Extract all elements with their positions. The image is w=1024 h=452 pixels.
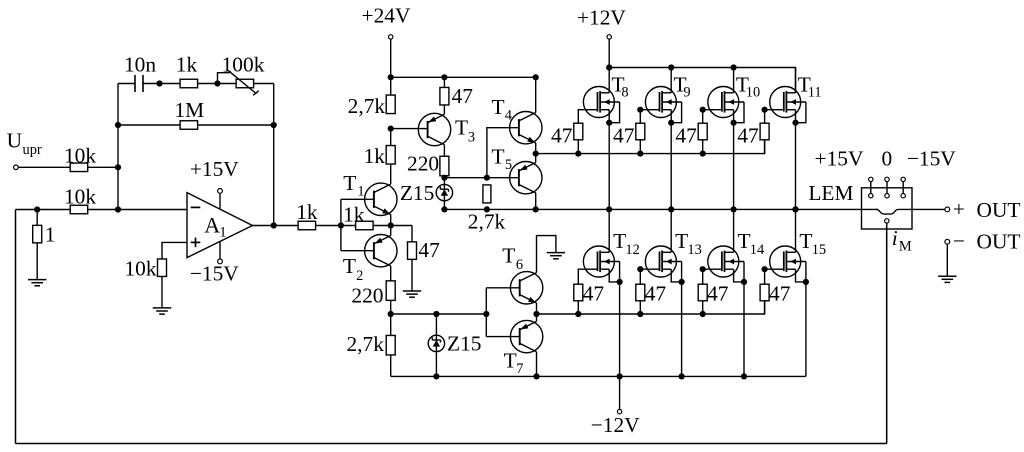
wire T12 drain [608, 209, 610, 252]
resistor R3 1k (feedback) [180, 79, 198, 88]
wire R10 to ground [411, 259, 413, 291]
wire T14 gate [703, 269, 709, 284]
svg-text:T: T [504, 348, 517, 372]
wire T7 collector [536, 352, 538, 377]
wire T2 collector [390, 266, 392, 281]
svg-text:OUT: OUT [977, 198, 1021, 222]
wire T14 source [734, 269, 744, 282]
junction lower zener top [433, 311, 439, 317]
wire T14 source to -12V rail [743, 282, 745, 377]
wire op-amp output row [253, 225, 413, 227]
wire left node vertical [117, 84, 119, 210]
wire inverting input row [16, 209, 188, 211]
junction 2,7k top [484, 175, 490, 181]
wire T11 gate [765, 110, 771, 124]
svg-text:220: 220 [407, 151, 439, 175]
wire T13 source [671, 269, 681, 282]
svg-text:47: 47 [675, 123, 697, 147]
svg-text:2,7k: 2,7k [468, 209, 506, 233]
wire +12V rail [609, 68, 795, 93]
svg-text:i: i [892, 226, 898, 250]
svg-text:1: 1 [219, 225, 226, 241]
wire T15 source to -12V rail [805, 282, 807, 377]
svg-text:T: T [455, 115, 468, 139]
resistor 47 (T12 gate) [574, 284, 583, 301]
junction 1M left [115, 122, 121, 128]
transistor T15 (MOSFET) [770, 246, 801, 277]
svg-text:47: 47 [418, 238, 440, 262]
op-amp -15V pin [219, 242, 221, 259]
wire 1M row [118, 124, 274, 126]
wire T11 drain [795, 68, 797, 93]
svg-text:+15V: +15V [190, 157, 239, 181]
transistor T4 [510, 112, 542, 144]
svg-text:9: 9 [683, 84, 690, 100]
junction D1 lower [441, 206, 447, 212]
junction T13 source [679, 279, 685, 285]
potentiometer R4 100k [236, 79, 254, 88]
resistor R18 47 (T8 gate) [574, 123, 583, 140]
wire R13 to drive node [390, 300, 392, 335]
junction T10 source [731, 120, 737, 126]
svg-text:−12V: −12V [591, 413, 640, 437]
wire T12 body tie [619, 262, 621, 282]
junction 1M right [271, 122, 277, 128]
svg-text:3: 3 [468, 130, 475, 146]
input terminal Uupr [14, 165, 19, 170]
junction T7 collector rail [533, 373, 539, 379]
junction -12V T12 [617, 373, 623, 379]
junction T11 source [792, 120, 798, 126]
transistor T3 [418, 113, 450, 145]
wire T7 emitter [536, 314, 538, 321]
svg-text:2,7k: 2,7k [348, 94, 386, 118]
junction T5 collector rail [533, 206, 539, 212]
junction R17 bottom [484, 206, 490, 212]
resistor R2 10k (inverting) [70, 205, 88, 214]
junction T14 gate elbow [700, 266, 706, 272]
svg-text:0: 0 [882, 147, 893, 171]
svg-text:14: 14 [750, 242, 764, 258]
svg-text:47: 47 [769, 281, 791, 305]
svg-text:M: M [899, 238, 912, 254]
svg-text:4: 4 [505, 108, 512, 124]
wire T6T7 base vertical [485, 288, 487, 337]
junction +24V rail right [533, 74, 539, 80]
wire +24V rail [391, 76, 536, 78]
svg-text:7: 7 [516, 361, 523, 377]
junction T6T7 base [483, 311, 489, 317]
svg-text:47: 47 [551, 123, 573, 147]
wire T13 gate [640, 269, 646, 284]
junction feedback/output [271, 222, 277, 228]
svg-text:2,7k: 2,7k [346, 332, 384, 356]
svg-text:10k: 10k [64, 184, 96, 208]
junction summing node [115, 206, 121, 212]
svg-text:47: 47 [737, 123, 759, 147]
svg-text:upr: upr [23, 142, 42, 158]
wire T1T2 base vertical [340, 199, 342, 250]
junction T10 gate rail [700, 151, 706, 157]
junction T11 source rail [792, 206, 798, 212]
junction output rail T11/T15 [792, 206, 798, 212]
op-amp A1 [187, 193, 253, 258]
wire T2 emitter [390, 226, 392, 236]
wire T4 collector [535, 77, 537, 112]
junction pot wiper node [214, 80, 220, 86]
junction T14 source [741, 279, 747, 285]
resistor R14 2,7k (lower) [386, 335, 395, 355]
wire T3 emitter [443, 105, 445, 115]
junction +12V T10 [731, 64, 737, 70]
svg-text:10n: 10n [124, 52, 156, 76]
wire R11 to bias node [390, 129, 392, 146]
resistor 47 (T13 gate) [636, 284, 645, 301]
svg-text:13: 13 [687, 242, 701, 258]
svg-text:8: 8 [621, 84, 628, 100]
resistor R6 1 (shunt) [36, 210, 38, 226]
wire T15 gate [765, 269, 771, 284]
svg-text:U: U [7, 129, 22, 153]
wire T8 gate [578, 110, 584, 124]
LEM sense loop [876, 209, 899, 214]
transistor T6 [510, 272, 542, 304]
wire LEM to +OUT [899, 208, 945, 210]
wire T15 gate resistor lower [764, 301, 766, 314]
wire T10 drain [733, 68, 735, 93]
resistor R22 47 (T10 gate) [698, 123, 707, 140]
wire T4 emitter [535, 143, 537, 163]
junction T9 source rail [668, 206, 674, 212]
transistor T12 (MOSFET) [583, 246, 614, 277]
wire T12 source [609, 269, 619, 282]
ground shunt resistor [28, 279, 46, 281]
svg-text:2: 2 [356, 268, 363, 284]
wire T10 source [733, 110, 735, 210]
wire T11 body tie [796, 102, 806, 123]
LEM iM pin [885, 219, 889, 223]
resistor R9 1k (base) [356, 221, 374, 230]
junction T12 source [617, 279, 623, 285]
wire T1 base [341, 198, 374, 200]
junction R15 rail [441, 74, 447, 80]
svg-text:T: T [343, 254, 356, 278]
resistor R7 10k (non-inv) [158, 259, 167, 277]
junction T1T2 base node [338, 222, 344, 228]
junction T15 gate elbow [762, 266, 768, 272]
ground R10 [403, 290, 421, 292]
wire R7 to ground [161, 276, 163, 308]
wire T8 gate resistor lower [577, 140, 579, 154]
svg-text:T: T [675, 229, 688, 253]
junction after C1 [156, 80, 162, 86]
wire T9 gate resistor lower [639, 140, 641, 154]
svg-text:12: 12 [625, 242, 639, 258]
junction +12V T8 [606, 64, 612, 70]
wire R14 to -12V rail [390, 355, 392, 376]
wire non-inverting input [162, 242, 187, 259]
wire T12 gate resistor lower [577, 301, 579, 314]
transistor T1 [365, 183, 397, 215]
junction D2 bottom [433, 373, 439, 379]
svg-text:1k: 1k [296, 200, 318, 224]
junction T15 source [803, 279, 809, 285]
svg-text:10: 10 [746, 84, 760, 100]
wire T14 body tie [743, 262, 745, 282]
svg-text:−15V: −15V [190, 262, 239, 286]
svg-text:T: T [738, 229, 751, 253]
resistor R15 47 [440, 87, 449, 105]
resistor 47 (T15 gate) [760, 284, 769, 301]
wire lower bias row [391, 313, 487, 315]
svg-text:+24V: +24V [362, 3, 411, 27]
wire node to R10 [411, 226, 413, 243]
transistor T8 (MOSFET) [583, 87, 614, 118]
junction T13 gate rail [637, 311, 643, 317]
resistor R5 1M [180, 121, 198, 130]
svg-text:−15V: −15V [907, 147, 956, 171]
wire bottom feedback [16, 443, 887, 445]
junction T9 gate elbow [637, 107, 643, 113]
wire T5 collector [535, 193, 537, 210]
wire T11 gate resistor lower [764, 140, 766, 154]
wire output rail [444, 208, 878, 210]
svg-text:1k: 1k [364, 144, 386, 168]
junction T13 gate elbow [637, 266, 643, 272]
svg-text:+: + [953, 197, 965, 221]
junction driver node [533, 151, 539, 157]
transistor T13 (MOSFET) [645, 246, 676, 277]
wire T9 drain [670, 68, 672, 93]
wire upper gate rail [536, 140, 765, 154]
+12V supply terminal [607, 35, 611, 39]
junction T12 gate rail [575, 311, 581, 317]
wire T12 gate [578, 269, 584, 284]
svg-text:OUT: OUT [977, 229, 1021, 253]
wire T15 drain [795, 209, 797, 252]
junction -12V T13 [679, 373, 685, 379]
svg-text:T: T [492, 145, 505, 169]
svg-text:10k: 10k [64, 143, 96, 167]
svg-text:+15V: +15V [815, 147, 864, 171]
svg-text:Z15: Z15 [400, 181, 434, 205]
wire T9 body tie [671, 102, 681, 123]
wire R15 to +24V rail [443, 77, 445, 87]
wire T13 drain [670, 209, 672, 252]
svg-text:1: 1 [45, 223, 56, 247]
wire lower gate rail [537, 301, 765, 314]
wire T15 body tie [805, 262, 807, 282]
transistor T5 [510, 162, 542, 194]
wire R16 to bias node [443, 176, 445, 210]
wire T6 emitter [536, 303, 538, 314]
resistor R20 47 (T9 gate) [636, 123, 645, 140]
svg-text:T: T [613, 229, 626, 253]
zener D2 Z15 [435, 314, 437, 376]
svg-text:47: 47 [452, 84, 474, 108]
wire T8 body tie [609, 102, 619, 123]
wire T8 source [608, 110, 610, 210]
ground -OUT [938, 275, 956, 277]
wire T15 source [796, 269, 806, 282]
junction T6T7 emitter node [533, 311, 539, 317]
junction T8 gate rail [575, 151, 581, 157]
resistor R12 2,7k [386, 95, 395, 114]
junction upper bias node [441, 175, 447, 181]
junction T10 source rail [731, 206, 737, 212]
wire T14 gate resistor lower [702, 301, 704, 314]
svg-text:11: 11 [808, 84, 822, 100]
current sensor LEM box [862, 188, 913, 229]
-12V supply terminal [619, 376, 621, 409]
wire T10 gate [703, 110, 709, 124]
junction +24V rail left [388, 74, 394, 80]
svg-text:1M: 1M [174, 98, 204, 122]
wire T3 base [391, 128, 428, 130]
junction input node [115, 164, 121, 170]
resistor R8 1k (output) [298, 221, 316, 230]
wire T8 drain [608, 68, 610, 93]
+OUT terminal [945, 207, 950, 212]
svg-text:1k: 1k [176, 52, 198, 76]
svg-text:T: T [343, 171, 356, 195]
resistor R24 47 (T11 gate) [760, 123, 769, 140]
junction T9 source [668, 120, 674, 126]
resistor R16 220 [440, 156, 449, 176]
wire T7 base [486, 336, 519, 338]
op-amp +15V pin [219, 193, 221, 209]
zener D1 Z15 [436, 184, 452, 200]
resistor R17 2,7k (mid) [483, 185, 491, 203]
svg-text:−: − [953, 229, 965, 253]
svg-text:220: 220 [351, 283, 383, 307]
svg-text:15: 15 [812, 242, 826, 258]
wire R3 to pot node [198, 83, 237, 85]
junction T11 gate elbow [762, 107, 768, 113]
transistor T11 (MOSFET) [770, 87, 801, 118]
+24V supply terminal [389, 35, 393, 39]
wire -12V rail [391, 375, 806, 377]
junction +12V T9 [668, 64, 674, 70]
svg-text:100k: 100k [222, 52, 265, 76]
wire T9 source [670, 110, 672, 210]
svg-text:47: 47 [645, 281, 667, 305]
wire T1 collector [390, 164, 392, 184]
svg-text:+12V: +12V [577, 5, 626, 29]
ground T6 collector [547, 252, 565, 254]
junction lower drive node [388, 311, 394, 317]
wire T6 base [486, 287, 519, 289]
resistor 47 (T14 gate) [698, 284, 707, 301]
LEM 0 pin [885, 177, 889, 181]
svg-text:A: A [204, 213, 220, 238]
wire T10 body tie [734, 102, 744, 123]
junction T8 source rail [606, 206, 612, 212]
resistor R1 10k (input) [70, 163, 88, 172]
wire T6 collector [537, 236, 556, 273]
wire T13 body tie [681, 262, 683, 282]
wire right feedback riser [886, 223, 888, 443]
svg-text:47: 47 [707, 281, 729, 305]
wire T14 drain [733, 209, 735, 252]
wire T1 emitter [390, 215, 392, 226]
transistor T10 (MOSFET) [708, 87, 739, 118]
wire pot to right node [254, 83, 274, 85]
wire T13 source to -12V rail [681, 282, 683, 377]
ground non-inverting [153, 307, 171, 309]
junction emitter node [388, 222, 394, 228]
junction T10 gate elbow [700, 107, 706, 113]
svg-text:1k: 1k [343, 202, 365, 226]
svg-text:1: 1 [357, 184, 364, 200]
wire T10 gate resistor lower [702, 140, 704, 154]
LEM +15V pin [869, 177, 873, 181]
wire capacitor branch top row [118, 83, 135, 85]
wire T2 base [341, 250, 374, 252]
svg-text:10k: 10k [124, 257, 156, 281]
wire R12 to +24V rail [390, 77, 392, 95]
wire T11 source [795, 110, 797, 210]
capacitor C1 10n [134, 75, 136, 92]
svg-text:Z15: Z15 [447, 332, 481, 356]
junction T14 gate rail [700, 311, 706, 317]
wire upper bias row [444, 177, 519, 179]
svg-text:6: 6 [516, 257, 523, 273]
junction T8 source [606, 120, 612, 126]
transistor T7 [510, 320, 542, 352]
svg-text:47: 47 [613, 123, 635, 147]
wire T12 source to -12V rail [619, 282, 621, 377]
resistor R13 220 [386, 281, 395, 301]
junction T9 gate rail [637, 151, 643, 157]
resistor R10 47 [408, 242, 417, 260]
junction T3 base node [388, 126, 394, 132]
wire left feedback down [15, 210, 17, 444]
-OUT terminal [945, 239, 950, 244]
wire T9 gate [640, 110, 646, 124]
svg-text:LEM: LEM [808, 181, 853, 205]
transistor T14 (MOSFET) [708, 246, 739, 277]
resistor R11 1k [386, 146, 395, 165]
transistor T2 [365, 235, 397, 267]
svg-text:5: 5 [505, 157, 512, 173]
svg-text:47: 47 [583, 281, 605, 305]
svg-text:T: T [502, 243, 515, 267]
wire T13 gate resistor lower [639, 301, 641, 314]
svg-text:T: T [799, 229, 812, 253]
LEM -15V pin [901, 177, 905, 181]
svg-text:T: T [492, 95, 505, 119]
junction -12V T14 [741, 373, 747, 379]
wire T3 collector [443, 145, 445, 157]
wire T4 base riser [487, 128, 519, 178]
junction shunt node [34, 206, 40, 212]
transistor T9 (MOSFET) [645, 87, 676, 118]
wire right feedback vertical [273, 84, 275, 226]
